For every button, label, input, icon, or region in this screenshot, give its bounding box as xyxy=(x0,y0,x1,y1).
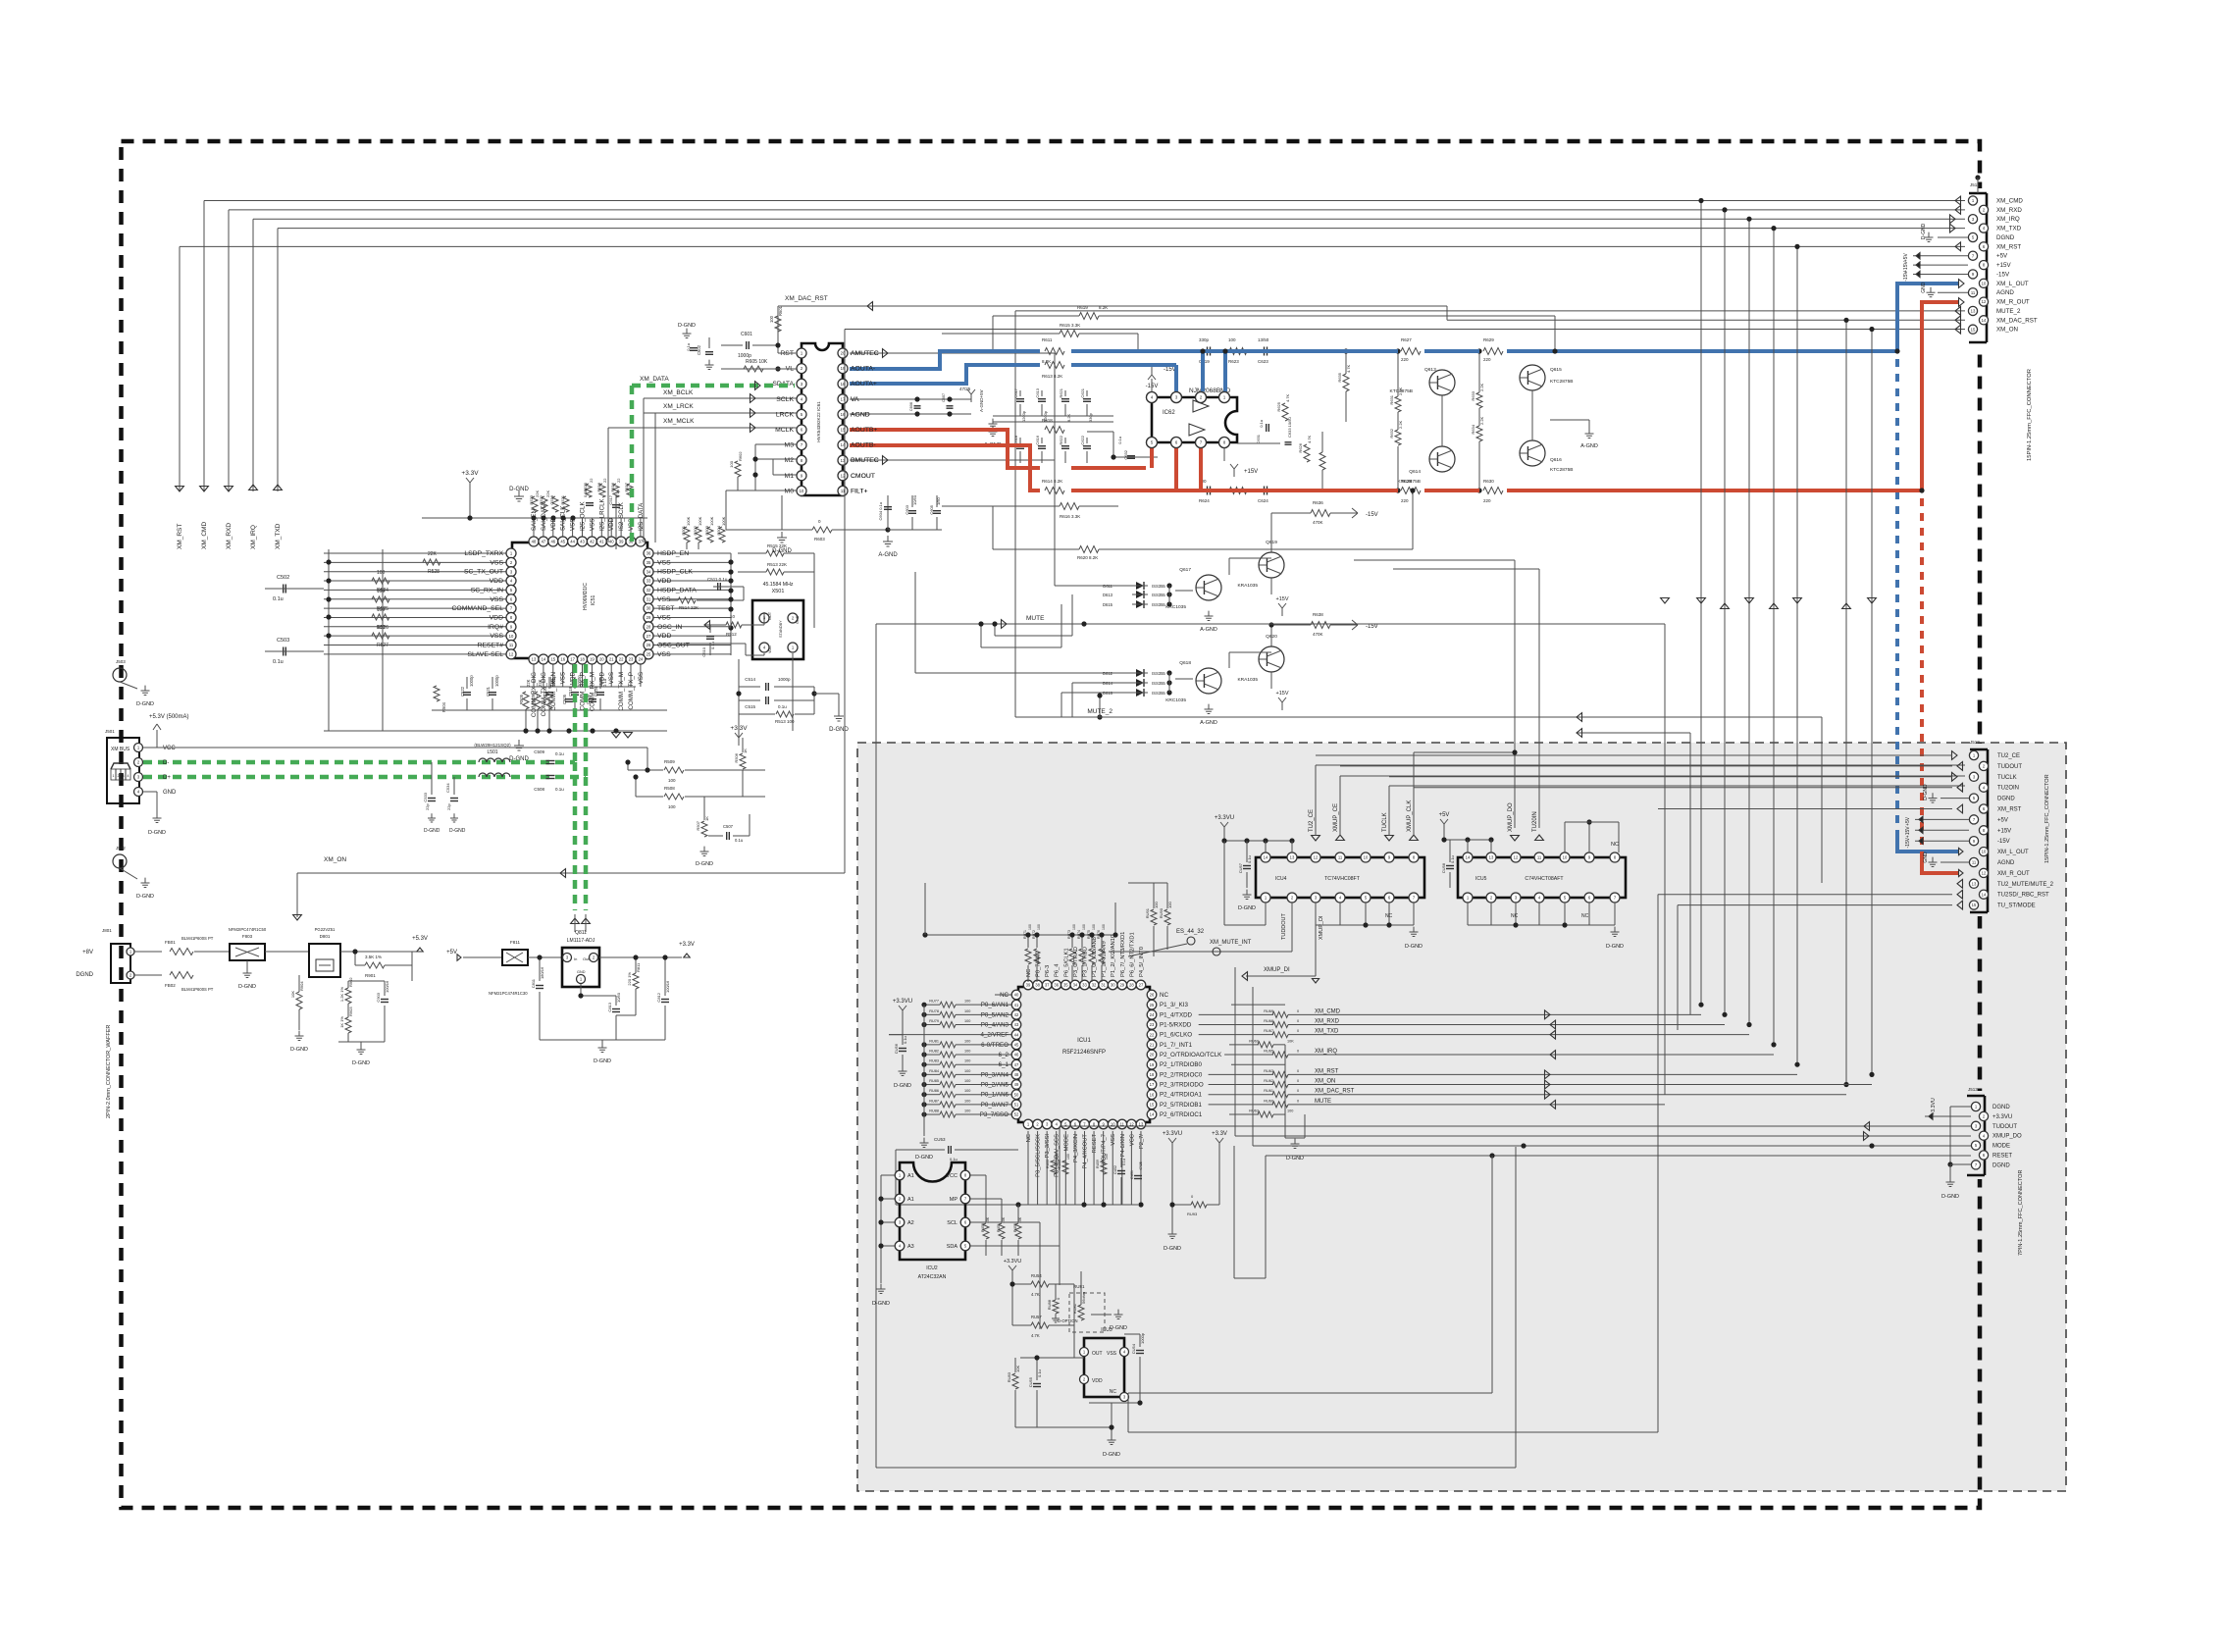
svg-text:XM_ON: XM_ON xyxy=(1996,327,2018,334)
svg-text:CU58: CU58 xyxy=(1441,862,1446,873)
svg-text:D-GND: D-GND xyxy=(148,830,166,836)
svg-text:470K: 470K xyxy=(1313,632,1323,637)
svg-text:0: 0 xyxy=(1297,1069,1299,1073)
svg-text:R624: R624 xyxy=(1199,498,1210,503)
svg-text:0: 0 xyxy=(1297,1019,1299,1023)
svg-text:15PIN-1.25mm_FFC_CONNECTOR: 15PIN-1.25mm_FFC_CONNECTOR xyxy=(2027,369,2033,461)
svg-text:ISS355: ISS355 xyxy=(1152,671,1165,676)
svg-text:D-GND: D-GND xyxy=(1110,1325,1127,1331)
svg-text:XM_LRCK: XM_LRCK xyxy=(663,403,694,410)
svg-text:GND: GND xyxy=(163,790,177,796)
svg-text:27: 27 xyxy=(1139,983,1144,988)
svg-text:12: 12 xyxy=(509,651,514,656)
svg-text:R509: R509 xyxy=(664,759,675,764)
svg-text:R504: R504 xyxy=(441,701,446,712)
svg-text:RU63: RU63 xyxy=(1264,1069,1273,1073)
svg-text:10: 10 xyxy=(1563,855,1568,860)
svg-text:D-GND: D-GND xyxy=(1238,905,1256,911)
svg-text:+15V: +15V xyxy=(1276,691,1289,697)
svg-text:F803: F803 xyxy=(242,934,253,939)
svg-text:R5F21246SNFP: R5F21246SNFP xyxy=(1062,1050,1106,1056)
svg-text:21: 21 xyxy=(1150,1042,1155,1047)
svg-text:OUT: OUT xyxy=(1092,1351,1103,1357)
svg-text:0.1u: 0.1u xyxy=(602,678,607,687)
svg-text:0.1u: 0.1u xyxy=(1117,437,1122,444)
svg-text:C604 0.1u: C604 0.1u xyxy=(878,502,883,520)
svg-text:11: 11 xyxy=(1537,855,1542,860)
svg-text:XM_IRQ: XM_IRQ xyxy=(1315,1049,1337,1055)
svg-text:RU88: RU88 xyxy=(1047,1299,1052,1310)
svg-text:25: 25 xyxy=(647,651,651,656)
svg-text:VSS: VSS xyxy=(657,651,671,658)
svg-text:R630: R630 xyxy=(1483,479,1494,484)
svg-text:-15V: -15V xyxy=(1366,624,1378,630)
svg-text:LRCK: LRCK xyxy=(776,411,795,418)
svg-text:NC: NC xyxy=(1110,1389,1117,1395)
svg-text:NC: NC xyxy=(1511,913,1519,919)
svg-text:C601: C601 xyxy=(741,332,752,337)
svg-text:ICU4: ICU4 xyxy=(1275,876,1287,882)
svg-text:P6_7/_NT3/RXD1: P6_7/_NT3/RXD1 xyxy=(1120,932,1126,977)
svg-text:L501: L501 xyxy=(487,749,497,755)
svg-text:C508: C508 xyxy=(534,787,544,792)
svg-text:32: 32 xyxy=(647,588,651,593)
svg-text:47: 47 xyxy=(542,540,546,544)
svg-text:VDD: VDD xyxy=(657,633,671,640)
svg-text:C521: C521 xyxy=(486,686,491,697)
svg-text:Out: Out xyxy=(583,956,590,961)
svg-text:39: 39 xyxy=(1026,983,1031,988)
svg-text:19: 19 xyxy=(590,657,595,662)
svg-text:RU59: RU59 xyxy=(1096,1160,1100,1168)
svg-text:C632: C632 xyxy=(1123,449,1128,459)
svg-text:C605: C605 xyxy=(929,504,934,514)
svg-text:XM_RST: XM_RST xyxy=(1315,1068,1339,1074)
svg-text:C616: C616 xyxy=(1035,435,1040,444)
svg-text:DGND: DGND xyxy=(1992,1162,2010,1168)
svg-text:100: 100 xyxy=(377,589,386,594)
svg-text:100: 100 xyxy=(377,625,386,631)
svg-text:2.2K: 2.2K xyxy=(1479,383,1484,391)
svg-text:R902: R902 xyxy=(348,977,353,987)
svg-text:13/50: 13/50 xyxy=(1258,337,1269,342)
svg-text:A2: A2 xyxy=(907,1220,914,1226)
svg-text:D-GND: D-GND xyxy=(238,984,256,990)
svg-text:14: 14 xyxy=(1150,1112,1155,1117)
svg-text:DGND: DGND xyxy=(76,972,93,978)
svg-text:VSS: VSS xyxy=(1111,1134,1116,1146)
svg-text:-15V: -15V xyxy=(1996,271,2010,278)
svg-text:RU51: RU51 xyxy=(997,1223,1001,1232)
svg-text:VDD: VDD xyxy=(490,578,503,585)
svg-text:+3.3V: +3.3V xyxy=(1212,1131,1227,1137)
svg-text:42: 42 xyxy=(1014,1012,1019,1017)
svg-text:22: 22 xyxy=(602,478,607,483)
svg-text:43: 43 xyxy=(580,540,585,544)
svg-text:C613: C613 xyxy=(1035,387,1040,397)
svg-text:RU68: RU68 xyxy=(1264,1019,1273,1023)
svg-text:40: 40 xyxy=(1014,993,1019,998)
svg-text:NC: NC xyxy=(1611,842,1619,848)
svg-text:17: 17 xyxy=(570,657,575,662)
svg-text:J512: J512 xyxy=(1970,740,1980,745)
svg-text:20: 20 xyxy=(1150,1053,1155,1058)
svg-text:0: 0 xyxy=(1297,1029,1299,1033)
svg-text:XM_CMD: XM_CMD xyxy=(1315,1008,1341,1014)
svg-text:AGND: AGND xyxy=(851,411,870,418)
svg-text:22: 22 xyxy=(589,478,594,483)
svg-text:10: 10 xyxy=(509,634,514,639)
svg-text:DGND: DGND xyxy=(1992,1105,2010,1110)
svg-text:27: 27 xyxy=(647,634,651,639)
svg-text:+15V: +15V xyxy=(1905,826,1911,838)
svg-text:C633 10/50: C633 10/50 xyxy=(1287,417,1292,438)
svg-text:XM_RST: XM_RST xyxy=(1996,243,2021,250)
svg-text:GND: GND xyxy=(577,970,586,974)
svg-text:RU91: RU91 xyxy=(1145,907,1150,918)
svg-text:29: 29 xyxy=(647,615,651,620)
svg-text:0.1u: 0.1u xyxy=(1450,855,1455,863)
svg-text:C811: C811 xyxy=(531,978,536,988)
svg-text:C509: C509 xyxy=(534,749,544,754)
svg-text:I2S_LRCLK: I2S_LRCLK xyxy=(598,497,605,531)
svg-text:100K: 100K xyxy=(686,516,691,526)
svg-text:RU57: RU57 xyxy=(1031,1315,1042,1319)
svg-text:XM_MCLK: XM_MCLK xyxy=(663,418,695,425)
svg-text:AT24C32AN: AT24C32AN xyxy=(918,1274,947,1280)
svg-text:D-GND: D-GND xyxy=(1923,784,1929,800)
svg-text:C505: C505 xyxy=(562,694,567,704)
svg-text:C813: C813 xyxy=(607,1002,612,1011)
svg-text:0.1u: 0.1u xyxy=(273,659,284,665)
svg-text:4.7K: 4.7K xyxy=(1307,435,1312,443)
svg-text:R615 3.3K: R615 3.3K xyxy=(1060,323,1080,328)
svg-text:RU53: RU53 xyxy=(981,1223,985,1232)
svg-text:4.7K: 4.7K xyxy=(1285,393,1290,402)
svg-text:+3.3VU: +3.3VU xyxy=(1004,1259,1022,1265)
svg-text:R621: R621 xyxy=(1059,387,1063,397)
svg-text:FB01: FB01 xyxy=(165,940,176,945)
svg-text:P2_1/TRDIOB0: P2_1/TRDIOB0 xyxy=(1160,1061,1203,1068)
svg-text:+3.3VU: +3.3VU xyxy=(1163,1131,1182,1137)
svg-text:C903: C903 xyxy=(376,992,381,1002)
svg-text:XM_IRQ: XM_IRQ xyxy=(1996,216,2020,223)
svg-text:J502: J502 xyxy=(116,846,126,851)
svg-text:SC_RX_IN: SC_RX_IN xyxy=(471,587,503,594)
svg-text:XM_R_OUT: XM_R_OUT xyxy=(1996,299,2030,306)
svg-text:XM_RXD: XM_RXD xyxy=(226,523,233,549)
svg-text:44: 44 xyxy=(1014,1032,1019,1037)
svg-text:RU81: RU81 xyxy=(1073,1284,1085,1289)
svg-text:HSDP_CLK: HSDP_CLK xyxy=(657,569,693,576)
svg-text:14: 14 xyxy=(1264,855,1268,860)
svg-text:13: 13 xyxy=(1971,309,1976,314)
svg-text:14: 14 xyxy=(542,657,546,662)
svg-text:D+: D+ xyxy=(163,775,171,781)
svg-text:R623: R623 xyxy=(1228,359,1239,364)
svg-text:Q615: Q615 xyxy=(1550,367,1562,373)
svg-text:30: 30 xyxy=(647,606,651,611)
svg-text:49: 49 xyxy=(1014,1082,1019,1087)
svg-text:XM_L_OUT: XM_L_OUT xyxy=(1997,850,2029,855)
svg-text:100: 100 xyxy=(1066,1154,1070,1160)
svg-text:22: 22 xyxy=(619,657,624,662)
svg-text:TU2_CE: TU2_CE xyxy=(1309,809,1315,832)
svg-text:R903: R903 xyxy=(348,1007,353,1016)
svg-text:C511 0.1u: C511 0.1u xyxy=(707,577,728,582)
svg-text:+5V: +5V xyxy=(1996,253,2008,260)
svg-text:30: 30 xyxy=(1111,983,1115,988)
svg-text:18: 18 xyxy=(580,657,585,662)
svg-text:R904: R904 xyxy=(299,981,304,991)
svg-text:100: 100 xyxy=(1092,924,1096,930)
svg-text:XM BUS: XM BUS xyxy=(111,747,130,752)
svg-text:RESET#: RESET# xyxy=(478,643,504,649)
svg-text:P1_4/TXDD: P1_4/TXDD xyxy=(1160,1011,1193,1018)
svg-text:42: 42 xyxy=(590,540,595,544)
svg-text:R529: R529 xyxy=(531,694,536,704)
svg-text:100: 100 xyxy=(964,1050,970,1054)
svg-text:C503: C503 xyxy=(277,638,289,644)
svg-text:TUCLK: TUCLK xyxy=(1382,812,1388,832)
svg-text:12: 12 xyxy=(1314,855,1319,860)
svg-text:COMM_TX_P: COMM_TX_P xyxy=(628,672,635,710)
svg-text:100: 100 xyxy=(964,1110,970,1113)
svg-text:CU56: CU56 xyxy=(894,1043,899,1054)
svg-text:R601: R601 xyxy=(778,305,783,316)
svg-text:3.5K 1%: 3.5K 1% xyxy=(365,955,382,959)
svg-text:ISS355: ISS355 xyxy=(1152,691,1165,696)
svg-text:R505: R505 xyxy=(519,694,524,704)
svg-text:KRA1035: KRA1035 xyxy=(1237,583,1258,589)
svg-text:P1_7/_INT1: P1_7/_INT1 xyxy=(1160,1042,1193,1049)
svg-text:C534: C534 xyxy=(445,783,450,793)
svg-text:XM_RXD: XM_RXD xyxy=(1996,207,2022,214)
svg-text:Q614: Q614 xyxy=(1409,469,1421,475)
svg-text:RU55: RU55 xyxy=(1046,1160,1050,1168)
svg-text:R619: R619 xyxy=(1077,305,1088,310)
svg-text:50: 50 xyxy=(1014,1092,1019,1097)
svg-text:P4_5/_INT0: P4_5/_INT0 xyxy=(1139,947,1145,977)
svg-text:10: 10 xyxy=(730,614,736,619)
svg-text:31: 31 xyxy=(647,596,651,601)
svg-text:33: 33 xyxy=(647,579,651,584)
svg-text:R618: R618 xyxy=(1042,418,1053,423)
svg-text:RU79: RU79 xyxy=(929,1019,939,1023)
svg-text:D-GND: D-GND xyxy=(894,1083,911,1089)
svg-text:100: 100 xyxy=(964,1059,970,1063)
svg-text:0.1u: 0.1u xyxy=(1259,420,1264,428)
svg-text:2.2K: 2.2K xyxy=(1398,420,1403,429)
svg-text:A1: A1 xyxy=(907,1197,914,1203)
svg-text:16: 16 xyxy=(560,657,565,662)
svg-text:MUTE_2: MUTE_2 xyxy=(1087,708,1112,715)
svg-text:0.1u: 0.1u xyxy=(710,642,715,649)
svg-text:35: 35 xyxy=(647,560,651,565)
svg-text:P3_0/TRAD: P3_0/TRAD xyxy=(1073,947,1079,977)
svg-text:11: 11 xyxy=(1338,855,1343,860)
svg-text:100K: 100K xyxy=(709,516,714,526)
svg-text:HV06MD1IC: HV06MD1IC xyxy=(583,583,589,610)
svg-text:-15V: -15V xyxy=(1997,839,2010,845)
svg-text:100/16: 100/16 xyxy=(665,980,670,993)
svg-text:XM_DAC_RST: XM_DAC_RST xyxy=(1315,1089,1355,1095)
svg-text:C631: C631 xyxy=(1256,434,1261,443)
svg-text:0: 0 xyxy=(1297,1089,1299,1093)
svg-text:43: 43 xyxy=(1014,1022,1019,1027)
svg-text:BMUTEC: BMUTEC xyxy=(851,457,879,464)
svg-text:220: 220 xyxy=(1483,357,1491,362)
svg-text:Q620: Q620 xyxy=(1266,634,1277,640)
svg-text:41: 41 xyxy=(1014,1003,1019,1007)
svg-text:0: 0 xyxy=(1297,1079,1299,1083)
svg-text:RU67: RU67 xyxy=(1264,1029,1273,1033)
svg-text:+3.3V: +3.3V xyxy=(679,942,695,948)
svg-text:R514 22K: R514 22K xyxy=(679,605,699,610)
svg-text:220: 220 xyxy=(1483,498,1491,503)
svg-text:XMUP_DO: XMUP_DO xyxy=(1508,802,1514,832)
svg-text:P4-6/XIN: P4-6/XIN xyxy=(1120,1134,1126,1158)
svg-text:RESET: RESET xyxy=(1092,1134,1098,1154)
svg-text:35: 35 xyxy=(1063,983,1068,988)
svg-text:10: 10 xyxy=(1982,281,1987,285)
svg-text:22K: 22K xyxy=(535,490,540,497)
svg-text:P2_O/TRDIOAO/TCLK: P2_O/TRDIOAO/TCLK xyxy=(1160,1052,1222,1058)
svg-text:C519: C519 xyxy=(568,686,573,697)
svg-text:40: 40 xyxy=(609,540,614,544)
svg-text:C623: C623 xyxy=(1258,359,1268,364)
svg-text:D-GND: D-GND xyxy=(1921,223,1927,239)
svg-text:48: 48 xyxy=(1014,1072,1019,1077)
svg-text:XM_TXD: XM_TXD xyxy=(1996,226,2022,232)
svg-text:0: 0 xyxy=(1297,1050,1299,1054)
svg-text:P4_4/XCOUT: P4_4/XCOUT xyxy=(1082,1134,1088,1169)
svg-text:11: 11 xyxy=(1972,860,1977,865)
svg-text:R638: R638 xyxy=(1313,612,1323,617)
svg-text:34: 34 xyxy=(647,569,651,574)
svg-text:R627: R627 xyxy=(1401,337,1412,342)
svg-text:C812: C812 xyxy=(656,992,661,1002)
svg-text:PG22VZ51: PG22VZ51 xyxy=(315,927,336,932)
svg-text:330p: 330p xyxy=(1199,337,1210,342)
svg-text:R518: R518 xyxy=(596,482,601,491)
svg-text:R506: R506 xyxy=(734,752,739,762)
svg-text:R513 100: R513 100 xyxy=(775,719,795,724)
svg-text:R517: R517 xyxy=(624,482,629,491)
svg-text:NFM2IPC474R1C50: NFM2IPC474R1C50 xyxy=(229,927,267,932)
svg-text:20: 20 xyxy=(599,657,604,662)
svg-text:+15V: +15V xyxy=(1244,469,1258,475)
svg-text:I2S_OCLK: I2S_OCLK xyxy=(580,501,587,531)
svg-text:NC: NC xyxy=(1160,992,1168,999)
svg-text:100: 100 xyxy=(1154,902,1159,908)
svg-text:VSS: VSS xyxy=(657,596,671,603)
svg-text:D-GND: D-GND xyxy=(678,323,696,329)
svg-text:KRC1035: KRC1035 xyxy=(1165,697,1186,703)
svg-text:R507: R507 xyxy=(696,820,700,830)
svg-text:1K 1%: 1K 1% xyxy=(339,1016,344,1028)
svg-text:LSDP_TXRX: LSDP_TXRX xyxy=(464,550,503,557)
svg-text:+5.3V (500mA): +5.3V (500mA) xyxy=(149,714,189,720)
svg-text:VSS: VSS xyxy=(1107,1351,1117,1357)
svg-text:41: 41 xyxy=(599,540,604,544)
svg-text:100: 100 xyxy=(964,1039,970,1043)
svg-text:13: 13 xyxy=(532,657,537,662)
svg-text:+3.3VU: +3.3VU xyxy=(1931,1098,1937,1115)
svg-text:NC: NC xyxy=(1026,1134,1032,1142)
svg-text:0.1u: 0.1u xyxy=(778,704,787,709)
svg-text:19: 19 xyxy=(1150,1062,1155,1067)
svg-text:D-GND: D-GND xyxy=(449,828,466,834)
svg-text:XMUP_DO: XMUP_DO xyxy=(1992,1134,2022,1140)
svg-text:RU78: RU78 xyxy=(929,1009,939,1013)
svg-text:D-GND: D-GND xyxy=(1941,1194,1959,1200)
svg-text:IRQ#: IRQ# xyxy=(488,624,503,631)
svg-text:RU61: RU61 xyxy=(1264,1089,1273,1093)
svg-text:100: 100 xyxy=(1028,924,1032,930)
svg-text:100: 100 xyxy=(729,460,734,467)
svg-text:XM_CMD: XM_CMD xyxy=(201,522,208,549)
svg-text:TUDOUT: TUDOUT xyxy=(1992,1124,2017,1130)
svg-text:23: 23 xyxy=(629,657,634,662)
svg-text:D615: D615 xyxy=(1103,602,1113,607)
svg-text:MUTE: MUTE xyxy=(1315,1099,1331,1105)
svg-text:100: 100 xyxy=(668,778,676,783)
svg-text:0.1u: 0.1u xyxy=(686,343,691,351)
svg-text:VSS: VSS xyxy=(490,633,503,640)
svg-text:R622: R622 xyxy=(1059,435,1063,444)
svg-text:IC51: IC51 xyxy=(591,595,596,606)
svg-text:22K: 22K xyxy=(549,679,554,687)
svg-text:DGND: DGND xyxy=(1997,797,2015,802)
svg-text:SLAVE-SEL: SLAVE-SEL xyxy=(467,651,503,658)
svg-text:R602: R602 xyxy=(738,451,743,461)
svg-text:XM_R_OUT: XM_R_OUT xyxy=(1997,871,2030,877)
svg-text:C622: C622 xyxy=(1080,435,1085,444)
svg-text:P1_6/CLKO: P1_6/CLKO xyxy=(1160,1032,1192,1039)
svg-text:R512: R512 xyxy=(726,632,737,637)
svg-text:AGND: AGND xyxy=(1997,860,2015,866)
svg-text:D-GND: D-GND xyxy=(290,1047,308,1053)
svg-text:Q618: Q618 xyxy=(1179,660,1191,666)
svg-text:CU53: CU53 xyxy=(934,1137,946,1142)
svg-text:SCLK: SCLK xyxy=(776,396,794,403)
svg-text:12: 12 xyxy=(1514,855,1519,860)
svg-text:RU86: RU86 xyxy=(929,1089,939,1093)
svg-text:D-GND: D-GND xyxy=(772,548,792,554)
svg-text:7PIN-1.25mm_FFC_CONNECTOR: 7PIN-1.25mm_FFC_CONNECTOR xyxy=(2018,1169,2024,1256)
svg-text:C617: C617 xyxy=(1013,387,1018,397)
svg-text:SCL: SCL xyxy=(947,1220,957,1226)
svg-text:VA: VA xyxy=(851,396,859,403)
svg-text:SDA: SDA xyxy=(947,1244,958,1250)
svg-text:ISS355: ISS355 xyxy=(1152,602,1165,607)
svg-text:XM_TXD: XM_TXD xyxy=(275,523,282,549)
svg-text:NC: NC xyxy=(1385,913,1393,919)
svg-text:M1: M1 xyxy=(785,473,795,480)
svg-text:CU51: CU51 xyxy=(1130,1170,1134,1179)
svg-text:CU54: CU54 xyxy=(1131,1343,1136,1354)
svg-text:100: 100 xyxy=(668,804,676,809)
svg-text:10K: 10K xyxy=(290,991,295,998)
svg-text:47/25: 47/25 xyxy=(959,387,971,391)
svg-text:RU69: RU69 xyxy=(1249,1039,1259,1043)
svg-text:RU54: RU54 xyxy=(1031,1273,1042,1278)
svg-text:X501: X501 xyxy=(772,589,785,594)
svg-text:RU88: RU88 xyxy=(929,1110,939,1113)
svg-text:C522: C522 xyxy=(460,686,465,697)
svg-text:39: 39 xyxy=(619,540,624,544)
